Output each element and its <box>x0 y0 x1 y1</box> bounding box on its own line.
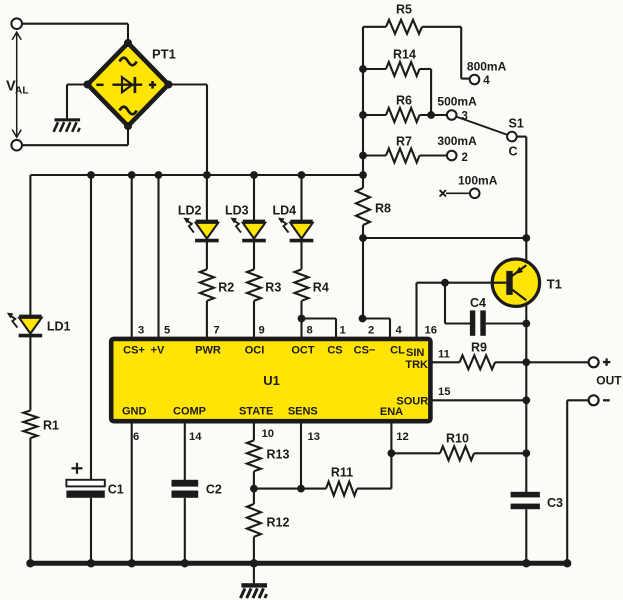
svg-text:LD4: LD4 <box>273 204 297 218</box>
svg-text:14: 14 <box>189 431 202 443</box>
svg-text:CL: CL <box>390 345 405 357</box>
svg-text:LD3: LD3 <box>225 204 249 218</box>
svg-text:PWR: PWR <box>195 345 221 357</box>
svg-text:11: 11 <box>438 348 450 360</box>
svg-text:R5: R5 <box>396 3 412 17</box>
svg-text:R7: R7 <box>396 135 412 149</box>
svg-text:R4: R4 <box>313 281 329 295</box>
svg-text:R6: R6 <box>396 93 412 107</box>
svg-text:7: 7 <box>213 325 219 337</box>
svg-text:1: 1 <box>340 325 346 337</box>
svg-text:2: 2 <box>462 152 468 164</box>
svg-text:OCI: OCI <box>245 345 265 357</box>
svg-text:R2: R2 <box>218 281 234 295</box>
svg-text:C2: C2 <box>206 483 222 497</box>
svg-text:300mA: 300mA <box>437 134 477 148</box>
svg-text:R14: R14 <box>393 48 416 62</box>
svg-text:R9: R9 <box>471 341 487 355</box>
svg-text:C3: C3 <box>547 496 563 510</box>
svg-text:COMP: COMP <box>173 405 206 417</box>
svg-text:TRK: TRK <box>405 359 428 371</box>
svg-text:C4: C4 <box>470 296 486 310</box>
svg-text:C: C <box>509 145 518 159</box>
svg-text:AL: AL <box>15 86 29 97</box>
svg-text:R12: R12 <box>267 516 290 530</box>
svg-text:S1: S1 <box>509 117 524 131</box>
svg-text:3: 3 <box>138 325 144 337</box>
svg-text:800mA: 800mA <box>467 60 507 74</box>
svg-text:CS+: CS+ <box>123 345 145 357</box>
svg-text:R13: R13 <box>267 448 290 462</box>
svg-text:6: 6 <box>133 431 139 443</box>
svg-text:+V: +V <box>151 345 165 357</box>
svg-text:10: 10 <box>262 428 274 440</box>
svg-text:4: 4 <box>396 325 403 337</box>
svg-text:8: 8 <box>307 325 313 337</box>
svg-text:CS: CS <box>327 345 342 357</box>
svg-text:5: 5 <box>164 325 170 337</box>
svg-text:R8: R8 <box>375 202 391 216</box>
svg-text:9: 9 <box>259 325 265 337</box>
svg-text:12: 12 <box>396 431 408 443</box>
svg-text:LD1: LD1 <box>47 320 71 334</box>
svg-text:ENA: ENA <box>380 406 403 418</box>
svg-text:15: 15 <box>438 386 450 398</box>
svg-text:100mA: 100mA <box>458 174 498 188</box>
svg-text:C1: C1 <box>108 483 124 497</box>
svg-text:PT1: PT1 <box>152 47 176 62</box>
svg-text:R1: R1 <box>43 419 59 433</box>
svg-text:R10: R10 <box>446 432 469 446</box>
svg-text:U1: U1 <box>263 373 280 388</box>
svg-text:16: 16 <box>425 325 437 337</box>
svg-text:CS−: CS− <box>354 345 376 357</box>
svg-text:500mA: 500mA <box>437 95 477 109</box>
svg-text:SIN: SIN <box>406 347 424 359</box>
svg-text:2: 2 <box>368 325 374 337</box>
svg-text:GND: GND <box>122 405 147 417</box>
svg-text:OCT: OCT <box>291 345 315 357</box>
svg-text:13: 13 <box>308 431 320 443</box>
svg-text:R3: R3 <box>265 281 281 295</box>
svg-text:OUT: OUT <box>596 373 622 387</box>
svg-text:4: 4 <box>483 75 490 87</box>
svg-text:LD2: LD2 <box>178 204 202 218</box>
svg-text:SENS: SENS <box>288 405 318 417</box>
svg-text:T1: T1 <box>547 277 562 292</box>
svg-text:STATE: STATE <box>239 405 273 417</box>
svg-text:R11: R11 <box>331 466 353 480</box>
